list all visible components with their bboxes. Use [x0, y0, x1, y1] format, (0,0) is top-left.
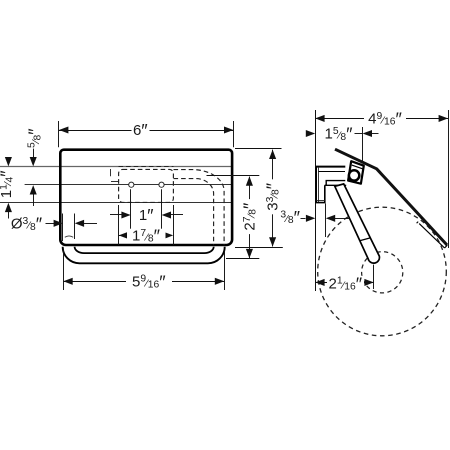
svg-text:6″: 6″	[133, 121, 148, 141]
svg-text:1″: 1″	[139, 206, 154, 226]
